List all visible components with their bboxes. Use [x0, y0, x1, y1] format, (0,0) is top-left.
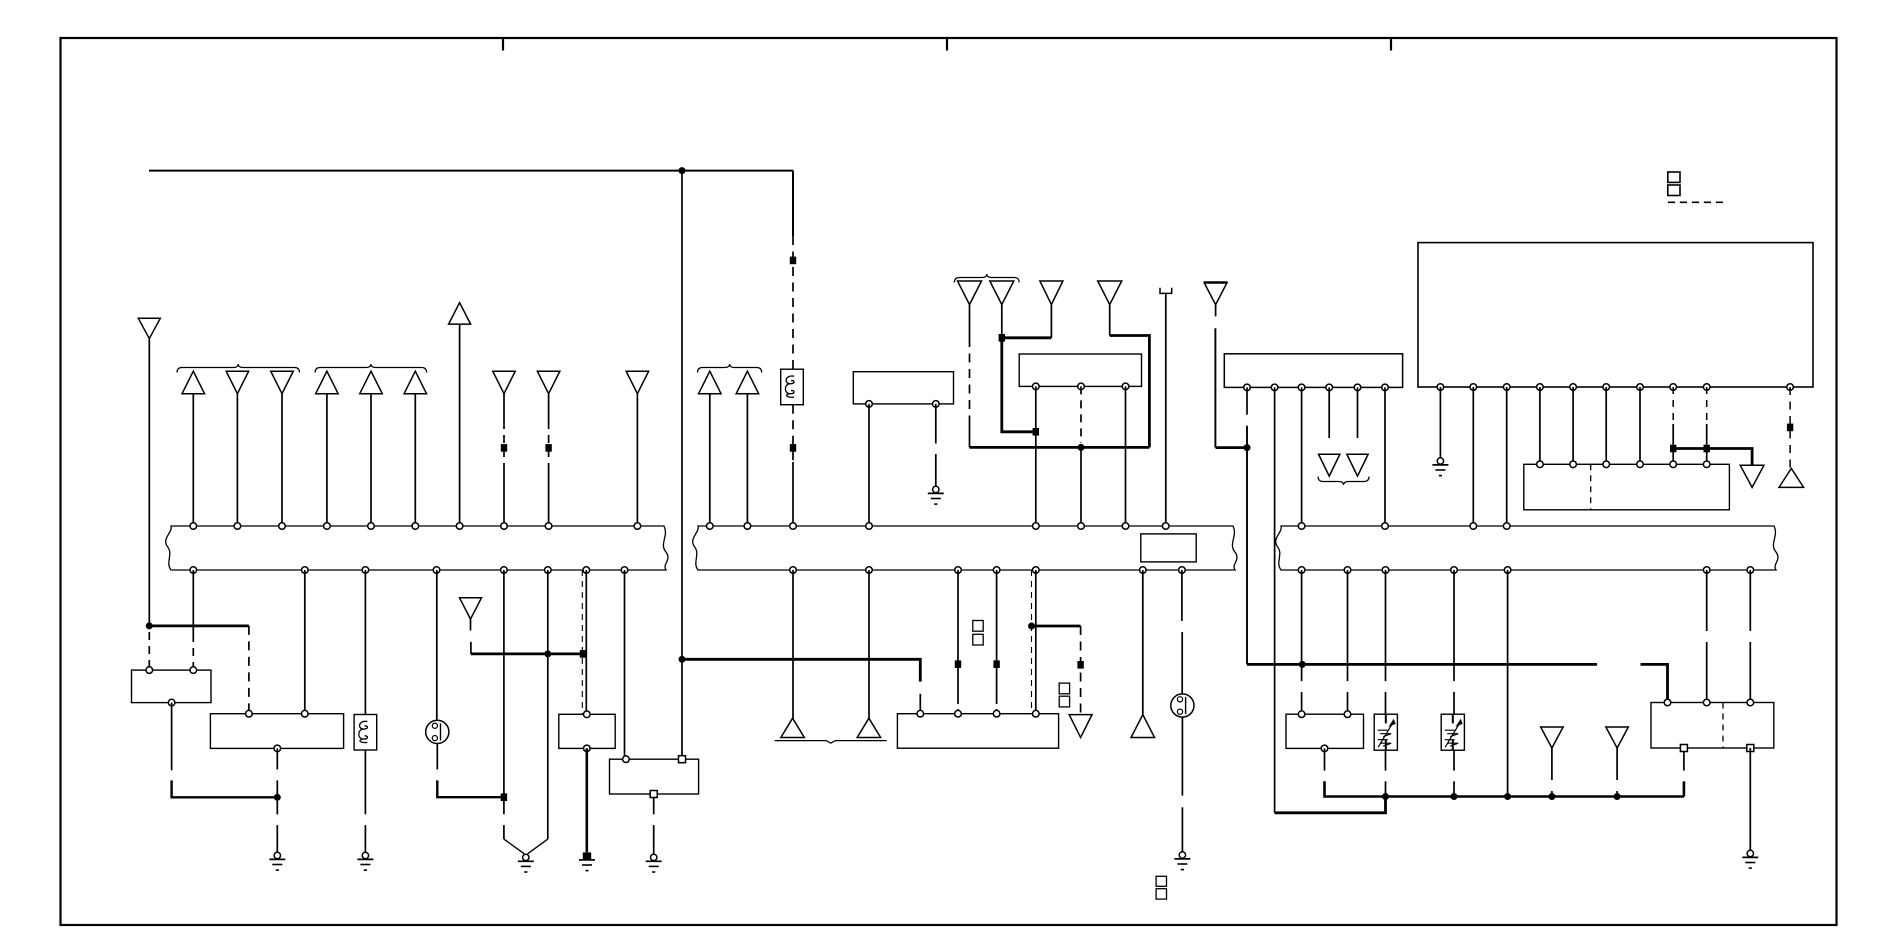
pin top of strip3 x=1506.7	[1503, 523, 1510, 530]
wire: strip2 to box I pin3	[993, 570, 999, 714]
wire: main feed horizontal	[149, 170, 793, 172]
box P	[1286, 711, 1364, 752]
bracket under connectors E3-E4	[1318, 477, 1369, 486]
wire: bold distribution rail	[1247, 663, 1597, 666]
pin top of strip1 x=371	[368, 523, 375, 530]
pin box K x=1573.1	[1570, 384, 1577, 391]
wire: bold link to connector E1	[1673, 449, 1752, 466]
connector C3	[958, 281, 982, 447]
wire: strip1 to lamp D	[436, 570, 438, 720]
ground G6	[928, 486, 944, 504]
pin bottom of strip2 x=869	[866, 567, 873, 574]
ground G9	[1742, 850, 1758, 868]
ground G7	[1174, 852, 1190, 870]
wire: bold rail to box I	[682, 659, 920, 713]
bus connector strip 3	[1276, 526, 1778, 570]
wire: box P out	[1325, 748, 1684, 796]
pin bottom of strip3 x=1706.7	[1703, 567, 1710, 574]
photo resistor Q2	[1441, 714, 1464, 750]
wire: box K pin6 to box M	[1605, 387, 1607, 464]
pin box M x=1606.2	[1603, 461, 1610, 468]
terminal cap C7	[1160, 288, 1172, 526]
wire: box K pin5 to box M	[1572, 387, 1574, 464]
pin bottom of strip3 x=1385.5	[1382, 567, 1389, 574]
bracket over connectors C1-C2	[698, 364, 762, 373]
pin top of strip1 x=548.6	[545, 523, 552, 530]
wire: fuse C to ground	[364, 750, 366, 852]
junction link/pin1 line	[1244, 444, 1251, 451]
pin bottom of strip2 x=958	[955, 567, 962, 574]
junction rail / strip3 line	[1299, 661, 1306, 668]
label squares pair 1	[973, 621, 983, 646]
connector A9	[493, 371, 516, 526]
wire: box L pin1 long drop	[1246, 387, 1248, 664]
wire: bold link C4-C5	[1002, 336, 1052, 339]
box A	[132, 667, 212, 706]
wire: Q1 to rail	[1385, 750, 1387, 796]
pin top of strip1 x=504	[501, 523, 508, 530]
connector B1 (floating)	[460, 598, 482, 631]
connector D4	[1131, 570, 1155, 738]
pin bottom of strip1 x=586.3	[583, 567, 590, 574]
wire: strip1 sense line left	[503, 570, 505, 797]
ground G3	[518, 854, 534, 872]
wire: strip2 to box I pin4 (shielded)	[1032, 570, 1036, 714]
pin top of strip2 x=1165.7	[1162, 523, 1169, 530]
connector A6	[360, 371, 383, 526]
box L	[1224, 354, 1402, 388]
pin bottom of strip2 x=793	[790, 567, 797, 574]
connector A7	[404, 371, 427, 526]
junction rail / box H pin2	[1078, 444, 1085, 451]
wire: bold rail second segment to box N	[1641, 664, 1668, 702]
bracket over connectors A5-A7	[315, 364, 427, 373]
box G	[853, 372, 953, 408]
connector E3	[1319, 387, 1340, 476]
pin top of strip2 x=709.8	[707, 523, 714, 530]
wire: box K pin9 to box M	[1706, 387, 1708, 464]
wire: fuse drop to bus	[792, 462, 794, 526]
pin bottom of strip3 x=1507.6	[1504, 567, 1511, 574]
pin bottom of strip3 x=1347.5	[1344, 567, 1351, 574]
wire: box B to ground	[276, 748, 278, 852]
wire: box E bold ground lead	[585, 748, 588, 852]
wire: strip2 to box I pin2	[955, 570, 961, 714]
wire: strip3 to box P pin2	[1347, 570, 1349, 714]
wire: dashed drop to D3	[1077, 626, 1083, 715]
label squares pair 4 (top right)	[1668, 172, 1680, 196]
junction long feed / box I rail	[679, 656, 686, 663]
wire: dashed drop to box B pin1	[248, 626, 250, 714]
lamp J	[1171, 694, 1194, 717]
connector E2	[1779, 468, 1804, 487]
pin box L x=1247	[1244, 384, 1251, 391]
connector C6	[1098, 281, 1122, 336]
connector A5	[316, 371, 339, 526]
pin box L x=1274.6	[1271, 384, 1278, 391]
pin box K x=1640	[1637, 384, 1644, 391]
wire: bold C4 drop	[1002, 338, 1036, 432]
connector C4	[990, 281, 1014, 338]
wire: strip3 to Q2	[1453, 570, 1455, 714]
wire: bold jog to relay B column	[149, 625, 249, 628]
pin top of strip3 x=1385	[1382, 523, 1389, 530]
junction shield tap	[1028, 623, 1035, 630]
connector F1	[1541, 727, 1564, 797]
wire: bold C6 link	[1110, 336, 1150, 448]
wire: feed drop to fuse column	[792, 171, 794, 236]
wire: box N to ground	[1749, 748, 1751, 850]
ground G8	[1432, 458, 1448, 476]
connector E1	[1740, 465, 1764, 487]
pin box M x=1573.1	[1570, 461, 1577, 468]
label squares pair 3	[1156, 876, 1166, 899]
junction of connector A1 drop	[146, 622, 153, 629]
connector A11	[626, 371, 649, 526]
pin bottom of strip1 x=547.8	[545, 567, 552, 574]
wire: B1 tail to splice rail	[470, 642, 472, 654]
connector E4	[1347, 387, 1368, 476]
splice below fuse	[790, 444, 796, 452]
pin box K x=1706.7	[1703, 384, 1710, 391]
connector A1 (tall, to harness)	[138, 318, 160, 626]
dashed note leader	[1668, 201, 1724, 203]
wire: dashed drop to box A pin1	[148, 632, 150, 670]
wire: strip3 to box N pin2	[1706, 570, 1708, 703]
wire: box L pin6 to bus	[1384, 387, 1386, 526]
box M	[1524, 464, 1730, 510]
junction box A/B out	[274, 794, 281, 801]
pin box K x=1790.1	[1787, 384, 1794, 391]
bus connector strip 2	[693, 526, 1237, 570]
wire: box A out	[172, 703, 278, 798]
wire: bold splice rail	[471, 653, 583, 656]
bus connector strip 1	[166, 526, 668, 570]
wire: Q2 to rail	[1453, 750, 1455, 796]
label squares pair 2	[1059, 683, 1069, 707]
wire: box L pin3 to bus	[1301, 387, 1303, 526]
connector A4	[271, 371, 294, 526]
pin box M x=1673.2	[1670, 461, 1677, 468]
pin bottom of strip2 x=996.6	[993, 567, 1000, 574]
junction strip3/rail	[1504, 793, 1511, 800]
box B	[210, 710, 343, 751]
box E	[559, 711, 615, 752]
pin top of strip2 x=1125.5	[1122, 523, 1129, 530]
pin bottom of strip1 x=436.5	[433, 567, 440, 574]
splice lamp D / sense line	[501, 793, 507, 801]
wire: sense pair to ground (chevron)	[504, 654, 548, 854]
connector F2	[1606, 727, 1629, 797]
pin bottom of strip1 x=304.8	[302, 567, 309, 574]
wire: box G to bus	[868, 404, 870, 526]
splice onto box H pin1 line	[1033, 428, 1039, 436]
splice end on shield line	[580, 650, 586, 658]
junction Q2/rail	[1451, 793, 1458, 800]
pin top of strip2 x=747.4	[744, 523, 751, 530]
wire: strip1 to fuse C	[364, 570, 366, 715]
wire: box K pin4 to box M	[1539, 387, 1541, 464]
splice C4 node	[999, 334, 1005, 342]
connector C8	[1204, 283, 1227, 448]
wire: strip3 direct to rail	[1507, 570, 1509, 797]
wire: dashed drop below fuse	[792, 405, 794, 462]
wire: long feed drop to box F	[681, 171, 683, 760]
pin box K x=1673.2	[1670, 384, 1677, 391]
pin top of strip1 x=637.4	[634, 523, 641, 530]
wire: rail riser to box N	[1683, 752, 1686, 797]
fuse C	[354, 715, 377, 751]
connector C5	[1040, 281, 1063, 338]
pin box L x=1301.6	[1298, 384, 1305, 391]
box N	[1651, 699, 1774, 751]
bracket over connectors A2-A4	[177, 364, 300, 373]
wire: box H pin2 to bus	[1080, 386, 1082, 526]
wire: bold link C8 to box L pin1	[1216, 446, 1247, 449]
wire: strip1 to box A pin2	[192, 570, 194, 670]
wire: box G to ground	[935, 404, 937, 487]
splice on fuse drop	[790, 257, 796, 265]
wire: box H pin1 to bus	[1035, 386, 1037, 526]
wire: bold lower rail	[970, 446, 1150, 449]
pin top of strip2 x=1081	[1078, 523, 1085, 530]
pin box L x=1385	[1382, 384, 1389, 391]
pin box K x=1606.2	[1603, 384, 1610, 391]
pin bottom of strip1 x=193.3	[190, 567, 197, 574]
connector D3	[1069, 715, 1092, 738]
wire: box K pin10 drop	[1787, 387, 1793, 468]
pin box L x=1329.2	[1326, 384, 1333, 391]
wire: box F to ground	[653, 798, 655, 855]
pin top of strip3 x=1473.3	[1470, 523, 1477, 530]
pin bottom of strip3 x=1301.6	[1298, 567, 1305, 574]
bracket over connectors C3-C4	[954, 274, 1019, 283]
ground G1	[269, 852, 285, 870]
wire: strip1 to box B pin2	[304, 570, 306, 714]
box F	[610, 756, 699, 798]
fuse F1	[781, 369, 804, 405]
pin bottom of strip2 x=1142.8	[1140, 567, 1147, 574]
wire: box L pin2 jog to rail	[1275, 797, 1386, 813]
ground G5	[646, 854, 662, 872]
pin top of strip1 x=326.9	[324, 523, 331, 530]
photo resistor Q1	[1374, 714, 1397, 750]
connector A8 (tall)	[449, 303, 471, 526]
wire: lamp J to ground	[1181, 717, 1183, 852]
connector D2 (shield pair right)	[857, 570, 881, 738]
ECU box K	[1418, 243, 1813, 387]
junction F1/rail	[1548, 793, 1555, 800]
pin bottom of strip1 x=503.9	[501, 567, 508, 574]
pin bottom of strip3 x=1750.3	[1747, 567, 1754, 574]
ground G2	[357, 852, 373, 870]
wire: bold tap to connector D3	[1032, 625, 1081, 628]
connector A3	[226, 371, 249, 526]
pin top of strip1 x=415.3	[412, 523, 419, 530]
wire: strip1 sense line right	[547, 570, 549, 654]
pin top of strip2 x=1035.8	[1033, 523, 1040, 530]
splice pin9	[1704, 445, 1710, 453]
pin box M x=1640	[1637, 461, 1644, 468]
pin top of strip2 x=869	[866, 523, 873, 530]
connector C1	[699, 371, 722, 526]
wire: strip1 to box F pin1	[624, 570, 626, 759]
connector C2	[736, 371, 759, 526]
wire: dashed drop segment above fuse	[792, 236, 794, 369]
wire: box K pin1 to ground	[1439, 387, 1441, 458]
ground G4 (case)	[579, 852, 595, 870]
pin box K x=1473.3	[1470, 384, 1477, 391]
connector A2	[182, 371, 205, 526]
pin top of strip1 x=459.6	[456, 523, 463, 530]
shield base under D1-D2	[775, 741, 887, 744]
pin bottom of strip1 x=365.4	[362, 567, 369, 574]
pin box K x=1440.4	[1437, 384, 1444, 391]
junction splice rail / sense line	[544, 650, 551, 657]
box I	[897, 710, 1058, 748]
wire: box K pin7 to box M	[1639, 387, 1641, 464]
pin box L x=1357.5	[1354, 384, 1361, 391]
wire: box K pin3 to bus	[1506, 387, 1508, 526]
wire: strip2 to lamp J	[1181, 570, 1183, 694]
wire: box K pin2 to bus	[1472, 387, 1474, 526]
pin box M x=1706.7	[1703, 461, 1710, 468]
junction F2/rail	[1614, 793, 1621, 800]
pin bottom of strip1 x=624.5	[621, 567, 628, 574]
box H	[1019, 354, 1141, 390]
pin top of strip1 x=237.4	[234, 523, 241, 530]
wire: box H pin3 to bus	[1125, 386, 1127, 526]
junction on main feed	[679, 167, 686, 174]
pin box K x=1539.9	[1537, 384, 1544, 391]
pin bottom of strip2 x=1181.9	[1179, 567, 1186, 574]
pin box K x=1506.7	[1503, 384, 1510, 391]
wire: lamp D down	[437, 744, 504, 798]
junction Q1/rail	[1382, 793, 1389, 800]
connector D1 (shield pair left)	[781, 570, 805, 738]
wire: strip3 to Q1	[1385, 570, 1387, 714]
lamp D	[426, 720, 449, 743]
pin top of strip1 x=193.3	[190, 523, 197, 530]
pin box M x=1539.9	[1537, 461, 1544, 468]
connector A10	[537, 371, 560, 526]
pin top of strip1 x=282	[279, 523, 286, 530]
pin top of strip2 x=793	[790, 523, 797, 530]
wire: strip3 to box P pin1	[1301, 570, 1303, 714]
wire: box K pin8 to box M	[1672, 387, 1674, 464]
pin bottom of strip3 x=1454	[1451, 567, 1458, 574]
wire: strip3 to box N pin3	[1749, 570, 1751, 703]
wire: box L pin2 long drop	[1274, 387, 1276, 812]
wire: strip1 to box E (shielded)	[582, 570, 586, 714]
splice pin8	[1670, 445, 1676, 453]
pin top of strip3 x=1301.6	[1298, 523, 1305, 530]
pin bottom of strip2 x=1035.8	[1033, 567, 1040, 574]
